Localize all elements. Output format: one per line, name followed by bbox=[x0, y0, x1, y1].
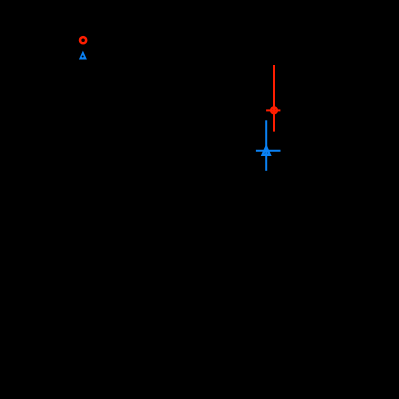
legend marker: blue triangle (series 2) bbox=[79, 51, 87, 60]
red data point: horizontal error bar bbox=[266, 109, 280, 111]
blue data point: vertical error bar bbox=[265, 120, 267, 171]
legend triangle hollow center bbox=[82, 56, 84, 58]
red data point: vertical error bar bbox=[273, 65, 275, 132]
legend marker: red circle (series 1) bbox=[80, 37, 86, 43]
blue data point: triangle marker bbox=[263, 147, 270, 155]
red data point: circle marker bbox=[271, 107, 277, 113]
blue data point: horizontal error bar bbox=[256, 150, 281, 152]
